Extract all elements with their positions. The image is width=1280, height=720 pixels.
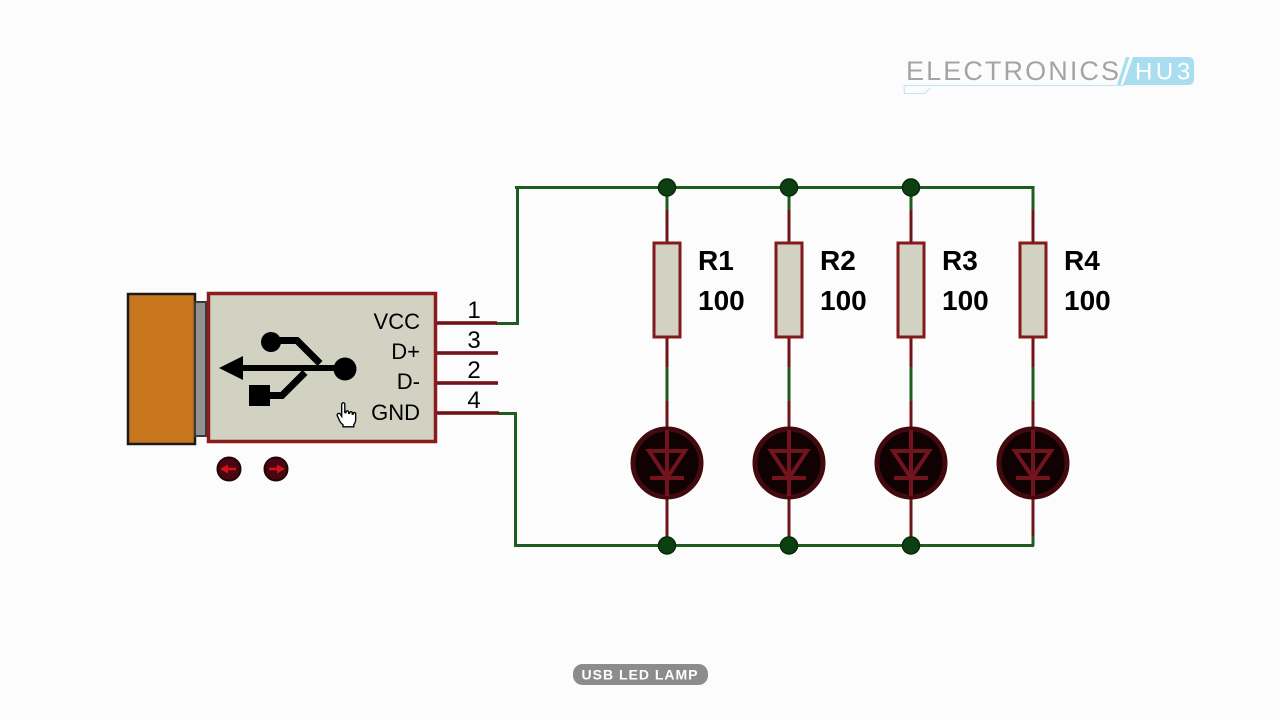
svg-text:D+: D+ [391, 339, 420, 364]
svg-text:HU3: HU3 [1135, 59, 1194, 86]
svg-text:100: 100 [698, 285, 745, 316]
svg-text:R1: R1 [698, 245, 734, 276]
resistor R2 [776, 210, 802, 367]
wire: branch 4 mid green segment [1032, 366, 1035, 401]
wire: branch 1 mid green segment [666, 366, 669, 401]
svg-text:GND: GND [371, 400, 420, 425]
USB icon [219, 332, 357, 406]
LED D4 [999, 401, 1067, 536]
rotate-left icon button [218, 458, 241, 481]
svg-text:100: 100 [820, 285, 867, 316]
svg-text:USB LED LAMP: USB LED LAMP [582, 667, 699, 683]
LED D2 [755, 401, 823, 536]
wire: branch 2 mid green segment [788, 366, 791, 401]
junction dot top rail branch 1 [659, 179, 676, 196]
wire: left vertical from VCC up to top rail [516, 186, 519, 325]
LED D3 [877, 401, 945, 536]
wire: top power rail [515, 186, 1034, 189]
resistor R3 [898, 210, 924, 367]
pin stub 2 (D-) [437, 381, 498, 385]
svg-text:100: 100 [1064, 285, 1111, 316]
wire: branch 1 top green stub [666, 186, 669, 210]
svg-text:ELECTRONICS: ELECTRONICS [906, 56, 1121, 86]
LED D1 [633, 401, 701, 536]
USB connector plug (orange body) [128, 294, 195, 444]
wire: GND horizontal green segment [498, 412, 517, 415]
svg-text:3: 3 [467, 327, 480, 354]
svg-text:R2: R2 [820, 245, 856, 276]
svg-text:R3: R3 [942, 245, 978, 276]
mouse hand cursor [337, 403, 356, 427]
svg-text:VCC: VCC [374, 309, 421, 334]
junction dot bottom rail branch 3 [903, 537, 920, 554]
wire: branch 3 top green stub [910, 186, 913, 210]
wire: bottom ground rail [514, 544, 1034, 547]
caption USB LED LAMP [573, 664, 708, 685]
junction dot top rail branch 3 [903, 179, 920, 196]
wire: branch 4 top green stub [1032, 186, 1035, 210]
wire: VCC horizontal green segment [496, 322, 518, 325]
resistor R1 [654, 210, 680, 367]
wire: branch 4 bottom green stub [1032, 533, 1035, 546]
wire: left vertical from GND down to bottom rail [514, 412, 517, 547]
svg-text:R4: R4 [1064, 245, 1100, 276]
svg-text:100: 100 [942, 285, 989, 316]
svg-text:4: 4 [467, 387, 480, 414]
pin stub 4 (GND) [437, 411, 499, 415]
watermark logo ELECTRONICS HUB [904, 56, 1194, 94]
rotate-right icon button [265, 458, 288, 481]
resistor R4 [1020, 210, 1046, 367]
wire: branch 2 top green stub [788, 186, 791, 210]
pin stub 1 (VCC) [437, 321, 497, 325]
junction dot bottom rail branch 1 [659, 537, 676, 554]
wire: branch 1 bottom green stub [666, 533, 669, 546]
USB connector J1 body [209, 294, 436, 442]
svg-text:1: 1 [467, 297, 480, 324]
wire: branch 3 bottom green stub [910, 533, 913, 546]
pin stub 3 (D+) [437, 351, 498, 355]
junction dot bottom rail branch 2 [781, 537, 798, 554]
svg-text:D-: D- [397, 369, 420, 394]
wire: branch 2 bottom green stub [788, 533, 791, 546]
svg-text:2: 2 [467, 357, 480, 384]
USB connector metal shield (gray strip) [195, 302, 206, 436]
wire: branch 3 mid green segment [910, 366, 913, 401]
junction dot top rail branch 2 [781, 179, 798, 196]
